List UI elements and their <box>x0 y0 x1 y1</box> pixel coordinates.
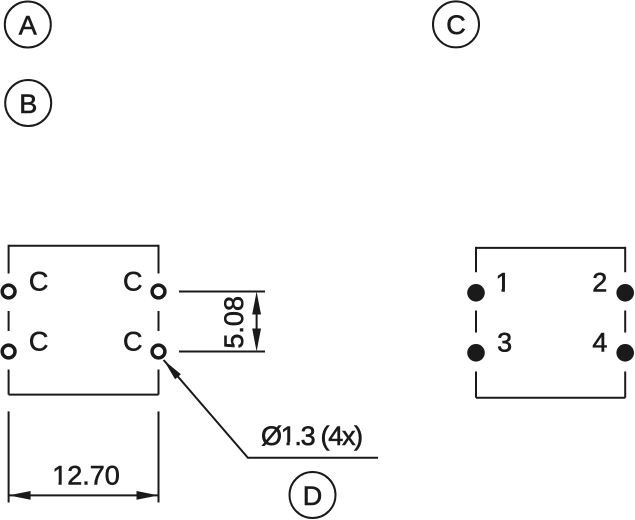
dimension 5.08 extension lines <box>179 292 265 352</box>
svg-text:3: 3 <box>497 327 512 357</box>
svg-text:C: C <box>123 326 143 356</box>
balloon C <box>433 1 479 47</box>
svg-text:D: D <box>303 481 323 511</box>
pin 4 dot <box>616 344 634 362</box>
svg-text:A: A <box>19 10 37 40</box>
balloon A <box>5 2 51 48</box>
pin 1 dot <box>467 284 485 302</box>
svg-text:5.08: 5.08 <box>219 296 249 349</box>
balloon B <box>5 80 51 126</box>
footprint outline (left square, broken at pads) <box>9 245 159 395</box>
svg-text:4: 4 <box>592 327 607 357</box>
svg-text:B: B <box>19 89 37 119</box>
svg-text:C: C <box>123 266 143 296</box>
pin side outline (right square, broken at pins) <box>476 247 625 398</box>
right edge segments <box>624 247 626 398</box>
leader line to hole <box>164 360 378 458</box>
pad hole bottom-left <box>2 345 15 358</box>
svg-text:Ø1.3 (4x): Ø1.3 (4x) <box>261 421 362 451</box>
pad hole top-left <box>2 285 15 298</box>
dimension 12.70 line with arrowheads <box>9 494 159 496</box>
svg-text:C: C <box>29 326 49 356</box>
top edge <box>9 245 159 247</box>
dimension 5.08 line with arrowheads <box>252 292 261 352</box>
svg-text:2: 2 <box>592 268 607 298</box>
balloon D <box>290 472 336 518</box>
top edge <box>476 247 625 249</box>
svg-text:C: C <box>29 266 49 296</box>
right edge segments <box>158 245 160 395</box>
svg-text:12.70: 12.70 <box>52 461 120 491</box>
pad hole bottom-right <box>152 345 165 358</box>
bottom edge <box>9 394 159 396</box>
pin 3 dot <box>467 344 485 362</box>
svg-text:C: C <box>446 10 466 40</box>
pin 2 dot <box>616 284 634 302</box>
pad hole top-right <box>152 285 165 298</box>
leader arrowhead <box>164 360 181 379</box>
dimension 12.70 extension lines <box>9 411 159 502</box>
bottom edge <box>476 397 625 399</box>
left edge segments <box>8 245 10 395</box>
left edge segments <box>475 247 477 398</box>
glyph corrections: remove foot serifs of "1" glyphs <box>54 288 511 485</box>
